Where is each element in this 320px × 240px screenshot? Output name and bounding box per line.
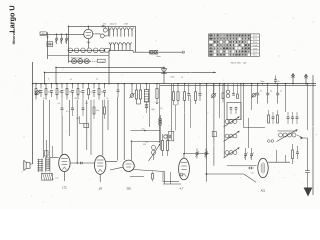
svg-text:5000: 5000 xyxy=(171,77,175,79)
left component group under bus xyxy=(35,83,37,85)
wire tube V1 plate xyxy=(93,33,101,35)
svg-text:2a: 2a xyxy=(96,79,98,81)
resistor R10 xyxy=(136,84,138,90)
coupling box mid drops xyxy=(78,116,80,123)
wire drop x213 xyxy=(213,84,215,166)
small box near antenna coil xyxy=(44,151,48,156)
IF transformer windings upper xyxy=(223,84,225,157)
wire V3 plate right xyxy=(106,161,117,163)
svg-text:100-125: 100-125 xyxy=(110,24,117,26)
ground arrow speaker xyxy=(304,188,313,197)
trimmer C40 xyxy=(196,152,199,154)
wire drop x206 xyxy=(206,84,208,182)
svg-text:0,5: 0,5 xyxy=(58,103,61,105)
arrow net A xyxy=(292,74,294,84)
second row resistors left xyxy=(93,107,95,114)
wire main bus xyxy=(33,83,316,85)
capacitor C26 and pot xyxy=(164,135,167,138)
svg-text:Minerva: Minerva xyxy=(12,31,16,44)
wire right rail xyxy=(312,75,314,195)
wire lower mid horizontal 2 xyxy=(131,141,161,143)
svg-text:70: 70 xyxy=(181,77,183,79)
svg-text:Netz: Netz xyxy=(261,80,265,83)
svg-text:50: 50 xyxy=(270,91,272,93)
wire transformer right side xyxy=(135,26,137,52)
capacitor C46 xyxy=(296,151,299,153)
wire drop x285 xyxy=(285,84,287,112)
capacitor C18 dial lamp branch xyxy=(117,84,119,90)
resistor R12 with arrow xyxy=(156,84,158,89)
wire bus second line xyxy=(160,84,316,86)
tube V6 rect xyxy=(258,158,268,177)
junction dots rails xyxy=(32,83,34,85)
trimmer C41 xyxy=(205,152,208,154)
capacitor C30 coupling xyxy=(80,162,82,165)
wire mains lead xyxy=(133,51,183,53)
capacitor C45 xyxy=(249,167,251,170)
wire V6 right xyxy=(268,161,290,163)
mains plug xyxy=(182,51,184,54)
pilot lamp La xyxy=(103,28,107,32)
capacitor C21 xyxy=(145,105,148,107)
resistor R11 xyxy=(140,84,142,90)
wire drop x307 xyxy=(307,84,309,130)
transformer Tr primary windings xyxy=(109,25,136,27)
wire V5 top to trimmers xyxy=(184,153,209,155)
coil L8 small xyxy=(159,115,161,150)
svg-text:750: 750 xyxy=(145,142,148,144)
wire lower right horizontal xyxy=(244,127,266,129)
phono jack xyxy=(23,160,25,170)
voltage table xyxy=(209,34,260,56)
resistor R13 xyxy=(173,84,175,92)
long drop wires left xyxy=(43,100,45,158)
switch box LW xyxy=(47,44,53,46)
fuse Si xyxy=(150,50,158,54)
svg-text:0,1: 0,1 xyxy=(66,111,69,113)
IF section parts row xyxy=(212,94,216,98)
coupling box on rail xyxy=(212,132,216,137)
wire drop x171 xyxy=(171,84,173,140)
trimmer capacitors IF xyxy=(244,153,247,155)
antenna coil L2 winding xyxy=(45,157,47,171)
svg-text:6: 6 xyxy=(48,79,49,81)
wire top line xyxy=(69,25,109,27)
IF can box xyxy=(227,103,241,120)
tube V1 mixer 7A8 xyxy=(84,29,93,38)
capacitor C23 xyxy=(199,84,201,94)
svg-text:Werte 4/65 · 1µF: Werte 4/65 · 1µF xyxy=(231,61,247,64)
wire drop x149 xyxy=(149,84,151,127)
coil pack row 1 xyxy=(69,49,105,51)
resistor R14 xyxy=(177,84,179,92)
wire bottom mid xyxy=(205,173,244,175)
wire riser x56 xyxy=(55,67,57,83)
svg-text:5k: 5k xyxy=(106,98,108,100)
arrow net B xyxy=(305,74,307,83)
wire IF bottom xyxy=(227,165,257,167)
wire speaker feed xyxy=(297,135,303,138)
wire lower mid horizontal 1 xyxy=(131,130,161,132)
svg-text:330: 330 xyxy=(126,186,131,190)
wire drop x159 xyxy=(158,84,160,143)
wire drop x243 xyxy=(243,84,245,128)
svg-text:202: 202 xyxy=(142,128,145,130)
tube V4 det 330 xyxy=(123,160,134,171)
input label box xyxy=(40,32,46,35)
tube V3 IF 1/5 xyxy=(95,156,106,175)
electrolytic C20 xyxy=(146,84,148,90)
svg-text:60: 60 xyxy=(278,81,280,83)
resistor R16 xyxy=(195,84,197,92)
wire V2 to V3 xyxy=(70,162,94,164)
coil L3 plate load xyxy=(100,34,104,38)
wire coil to tube xyxy=(50,156,59,158)
right caps row xyxy=(257,83,259,85)
wire left frame rail xyxy=(32,62,34,164)
potentiometer P2 xyxy=(130,94,134,98)
output transformer xyxy=(278,130,298,132)
svg-text:AZ1: AZ1 xyxy=(261,189,266,192)
svg-text:100: 100 xyxy=(76,118,79,120)
svg-text:0,5: 0,5 xyxy=(160,108,163,110)
svg-text:0,1: 0,1 xyxy=(280,91,283,93)
wire V4 top riser xyxy=(131,140,133,160)
svg-text:1/5: 1/5 xyxy=(98,187,102,191)
potentiometer P3 xyxy=(252,94,255,97)
capacitor C22 xyxy=(188,84,190,94)
coil pack row 2 oscillator xyxy=(69,60,92,62)
tube V2 RF 172 xyxy=(59,154,70,171)
wire grid line V5 xyxy=(163,181,179,183)
wire riser x44 xyxy=(44,72,46,83)
wire stub x52 xyxy=(51,146,53,157)
wire under coils xyxy=(48,55,109,57)
resistor R30 xyxy=(292,150,294,159)
svg-text:172: 172 xyxy=(62,185,67,189)
svg-text:4.7: 4.7 xyxy=(180,186,184,190)
diode D1 xyxy=(163,67,165,83)
wire riser x68 xyxy=(68,26,70,62)
svg-text:0,1: 0,1 xyxy=(70,79,72,81)
wire drop x190 xyxy=(190,95,192,128)
svg-text:Largo U: Largo U xyxy=(8,5,17,32)
wire rail A xyxy=(56,66,164,68)
svg-text:Netz: Netz xyxy=(156,55,160,58)
capacitor C47 inline xyxy=(305,170,310,172)
wire left riser x47 xyxy=(47,32,49,59)
chassis block xyxy=(42,173,53,180)
right second row parts xyxy=(268,110,270,115)
svg-text:50k: 50k xyxy=(96,110,99,112)
wire diagonal to V4 xyxy=(110,167,123,170)
transformer Tr secondary windings xyxy=(109,42,112,45)
resistor R15 xyxy=(184,84,186,92)
svg-text:0,1: 0,1 xyxy=(260,91,263,93)
switch box MW xyxy=(47,42,53,44)
bandswitch S1 contacts xyxy=(56,34,58,38)
svg-text:0,1: 0,1 xyxy=(43,98,45,100)
svg-text:MW: MW xyxy=(48,43,51,45)
resistor R20 small xyxy=(152,174,154,180)
wire drop x124 xyxy=(123,84,125,160)
antenna coil L1 with core xyxy=(37,159,39,172)
tube V5 output 4.7 xyxy=(179,158,190,180)
resistor R18 xyxy=(166,141,168,151)
resistor R17 xyxy=(161,141,163,151)
capacitor above bus xyxy=(275,76,277,80)
wire V4 bottom right xyxy=(133,170,165,172)
wire speaker drop xyxy=(307,138,309,171)
wire drop x175 xyxy=(175,105,177,131)
wires near V5 left xyxy=(164,172,166,184)
wire row1 drop to bus xyxy=(108,51,110,84)
svg-text:220V: 220V xyxy=(124,24,129,26)
potentiometer P1 xyxy=(36,91,40,95)
second row parts left xyxy=(61,107,64,109)
wire antenna input xyxy=(41,33,84,35)
wire rail B xyxy=(45,71,217,73)
trimmer block xyxy=(105,49,110,53)
svg-text:510: 510 xyxy=(143,144,146,146)
